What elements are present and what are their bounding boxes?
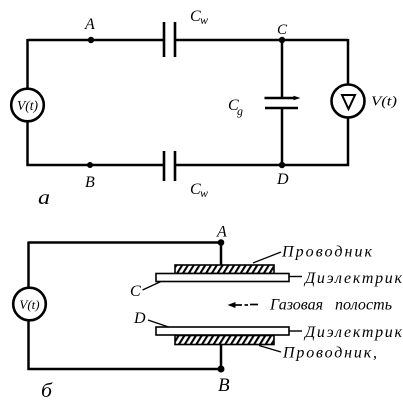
svg-text:A: A [216,224,227,241]
wire C_g branch upper [281,40,284,98]
svg-text:C: C [130,283,141,300]
svg-text:D: D [133,310,146,327]
svg-text:полость: полость [335,297,392,314]
gas cavity arrow [228,302,259,308]
wire bottom-left segment [27,164,164,167]
label D (fig b) [133,310,170,328]
voltage source V2 V(t) [13,288,46,321]
svg-text:D: D [276,171,289,188]
label C (fig b) [130,282,161,301]
svg-text:Газовая: Газовая [269,297,323,314]
label Provodnik bottom [259,345,377,362]
voltage source V1 V(t) [11,89,44,122]
wire left vertical upper [26,39,29,89]
label Dielektrik bottom [290,324,403,341]
svg-text:B: B [85,174,95,191]
label Provodnik top [253,244,373,264]
svg-text:Диэлектрик: Диэлектрик [303,270,403,287]
svg-text:V(t): V(t) [17,98,38,113]
wire top-right segment [175,39,348,42]
conductor plate top (hatched) [175,265,274,274]
label C_w top [190,8,208,27]
node B (fig b) [218,366,231,397]
label Dielektrik top [290,270,403,287]
node A (fig b) [216,224,227,246]
label C_g [228,97,243,118]
wire top horizontal [29,241,222,244]
wire right vertical lower [347,117,350,166]
dielectric plate top [156,274,289,282]
node A [84,16,95,43]
wire left vertical upper [27,242,30,289]
wire stub bottom plate to B [220,344,223,369]
svg-text:Диэлектрик: Диэлектрик [303,324,403,341]
wire bottom-right segment [175,164,349,167]
capacitor C1 (C_w top) [164,22,175,57]
wire right vertical upper [347,39,350,85]
svg-text:Проводник,: Проводник, [282,345,377,362]
svg-text:B: B [218,375,230,396]
node D [276,162,289,188]
svg-text:g: g [237,104,243,118]
wire top-left segment [28,39,164,42]
svg-text:w: w [200,186,208,200]
svg-text:C: C [277,22,288,38]
capacitor C_g plates [265,96,301,108]
svg-text:Проводник: Проводник [281,244,373,261]
wire stub A to top plate [220,243,223,267]
svg-text:V(t): V(t) [19,297,39,312]
wire bottom horizontal [28,368,222,371]
svg-text:V(t): V(t) [371,95,397,110]
detector U1 (null indicator) [332,85,365,118]
dielectric plate bottom [156,327,289,335]
wire left vertical lower [27,320,30,370]
svg-text:а: а [38,187,50,209]
svg-text:A: A [84,16,95,33]
svg-text:б: б [41,380,53,402]
wire C_g branch lower [281,108,284,165]
svg-text:w: w [200,13,208,27]
node B [85,162,95,191]
capacitor C2 (C_w bottom) [164,151,175,181]
conductor plate bottom (hatched) [175,336,274,345]
wire left vertical lower [26,121,29,166]
node C [277,22,288,43]
label C_w bottom [190,181,208,200]
